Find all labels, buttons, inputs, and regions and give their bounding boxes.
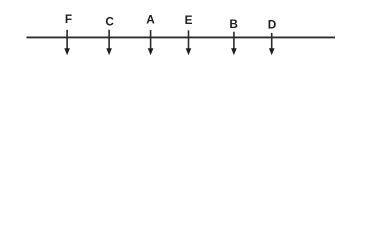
arrow C [108,30,110,50]
svg-text:E: E [185,13,193,27]
svg-text:D: D [268,18,277,32]
arrow D [271,33,273,49]
arrow F [66,30,68,49]
svg-text:A: A [146,13,155,27]
number line [27,36,336,38]
svg-text:C: C [105,15,114,29]
arrow E [188,30,190,49]
arrow A [150,30,152,49]
arrow B [233,32,235,50]
svg-text:F: F [65,12,72,26]
svg-text:B: B [229,17,238,31]
